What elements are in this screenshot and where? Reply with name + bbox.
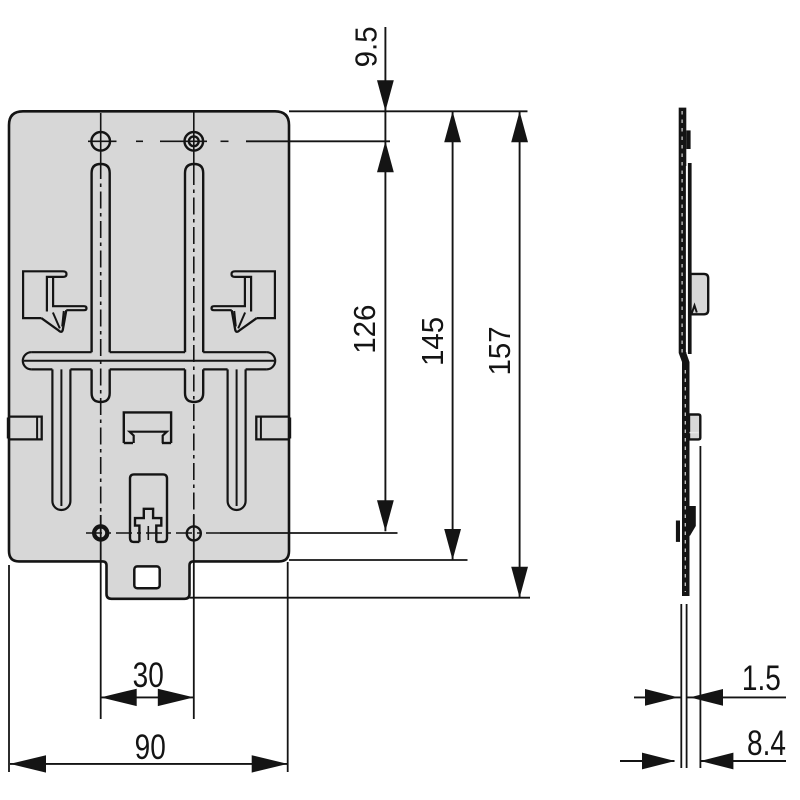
side view mounting tab (at notch level) — [689, 415, 700, 440]
side view clip block notch — [692, 306, 697, 315]
svg-text:8.4: 8.4 — [747, 723, 786, 763]
tab bottom extension line — [190, 597, 531, 599]
left clip outline — [23, 271, 66, 318]
bottom hole left (bold) — [94, 526, 107, 539]
left edge notch inner line — [36, 417, 38, 440]
side view bottom hook right block — [685, 506, 696, 536]
90 left extension line — [8, 565, 10, 772]
arrow 30 right — [158, 689, 194, 706]
right stub slot below bar — [228, 369, 246, 510]
svg-text:157: 157 — [483, 326, 517, 375]
90 right extension line — [287, 562, 289, 772]
top edge extension line — [289, 110, 528, 112]
top hole left crosshair horizontal — [88, 140, 117, 142]
arrow 157 up — [511, 111, 528, 142]
dim line 9.5/126 — [384, 27, 386, 531]
side view clip block — [691, 274, 709, 314]
side view top hook tab — [686, 130, 690, 149]
top hole left — [91, 132, 110, 151]
1.5 arrow left (points right) — [645, 689, 678, 706]
horizontal slot bar left cap — [23, 352, 32, 369]
side view lip layer white sliver — [686, 166, 688, 352]
horizontal slot bar bottom edge segments — [31, 368, 52, 370]
top holes centerline dash-dot — [136, 140, 143, 142]
dim line 157 — [519, 111, 521, 597]
right clip outline — [232, 271, 275, 318]
plate body (front view) — [9, 111, 289, 599]
side view mounting tab fold line — [690, 432, 699, 434]
right edge notch inner line — [260, 417, 262, 440]
bottom holes centerline extension to 126 dim — [220, 532, 398, 534]
right clip hook V — [232, 310, 257, 332]
left stub slot fold line — [60, 369, 62, 506]
top hole right inner — [189, 136, 199, 146]
extension line side left face — [680, 604, 682, 768]
left clip hook inner line — [53, 313, 60, 329]
dim line 145 — [452, 111, 454, 560]
slot 1 lower part — [92, 369, 110, 402]
left clip hook inner line 2 — [62, 311, 64, 327]
tab window (white rounded square in bottom tab) — [134, 566, 159, 588]
key slot inner cross — [135, 509, 161, 542]
centerline through slot2 / bottom-right hole — [193, 168, 195, 515]
arrow 126 down — [377, 500, 394, 531]
arrow 30 left — [101, 689, 137, 706]
arrow 90 left — [10, 755, 46, 772]
right clip hook inner line — [238, 313, 245, 329]
svg-text:9.5: 9.5 — [350, 26, 384, 67]
side view bottom hook left block — [676, 521, 680, 542]
arrow 145 up — [444, 111, 461, 142]
8.4 arrow left (points right) — [642, 753, 675, 770]
slot 2 lower part — [185, 369, 203, 402]
svg-text:90: 90 — [135, 727, 166, 767]
left clip stem and arm — [53, 277, 86, 310]
centerline through slot1 / bottom-left hole — [100, 162, 102, 515]
arrow 157 down — [511, 567, 528, 598]
slot 1 (left vertical slot) upper part — [92, 164, 110, 352]
hat bracket outer — [124, 412, 171, 443]
right stub slot fold line — [236, 369, 238, 506]
arrow 145 down — [444, 529, 461, 560]
side view centerline lower — [684, 370, 686, 592]
hat bracket inner line — [130, 432, 167, 443]
svg-text:145: 145 — [416, 317, 450, 366]
hat bracket foot bottoms — [124, 442, 133, 444]
top hole right crosshair vertical — [193, 112, 195, 168]
8.4 dim leader left — [620, 760, 675, 762]
key slot outer — [130, 474, 167, 542]
extension line side right face — [686, 604, 688, 768]
left edge notch bump — [7, 418, 9, 439]
arrow 9.5 down — [377, 80, 394, 111]
side view centerline (light dash on black) upper — [681, 111, 683, 353]
bottom hole right — [187, 526, 201, 540]
8.4 dim leader right — [700, 760, 786, 762]
extension line right of side view (8.4) — [699, 446, 701, 768]
left edge notch — [10, 417, 42, 440]
side view main profile (filled) — [679, 108, 690, 596]
left stub slot below bar — [52, 369, 70, 510]
bottom holes centerline dash-dot — [86, 532, 220, 534]
1.5 dim leader right — [687, 696, 786, 698]
side view lip layer — [688, 163, 692, 354]
top hole left crosshair vertical — [100, 113, 102, 162]
center mark at plate axis — [147, 526, 149, 540]
right clip hook inner line 2 — [234, 311, 236, 327]
1.5 dim leader left — [634, 696, 681, 698]
plate bottom extension line — [289, 559, 468, 561]
right edge notch bump — [289, 418, 291, 439]
top holes centerline extension to 9.5 dim — [246, 140, 390, 142]
90 dim line — [10, 763, 288, 765]
30 dim line — [101, 696, 194, 698]
arrow 126 up — [377, 141, 394, 172]
horizontal slot bar right cap — [267, 352, 276, 369]
svg-text:30: 30 — [133, 655, 164, 695]
1.5 arrow right (points left) — [690, 689, 723, 706]
svg-text:126: 126 — [349, 305, 383, 354]
right edge notch — [256, 417, 288, 440]
svg-text:1.5: 1.5 — [742, 658, 781, 698]
left clip hook V — [41, 310, 66, 332]
horizontal slot bar top edge segments — [31, 351, 91, 353]
8.4 arrow right (points left) — [700, 753, 733, 770]
slot 2 (right vertical slot) upper part — [185, 164, 203, 352]
right clip stem and arm — [212, 277, 245, 310]
top hole right outer — [185, 132, 204, 151]
horizontal slot bar middle fold line — [24, 360, 274, 362]
arrow 90 right — [252, 755, 288, 772]
